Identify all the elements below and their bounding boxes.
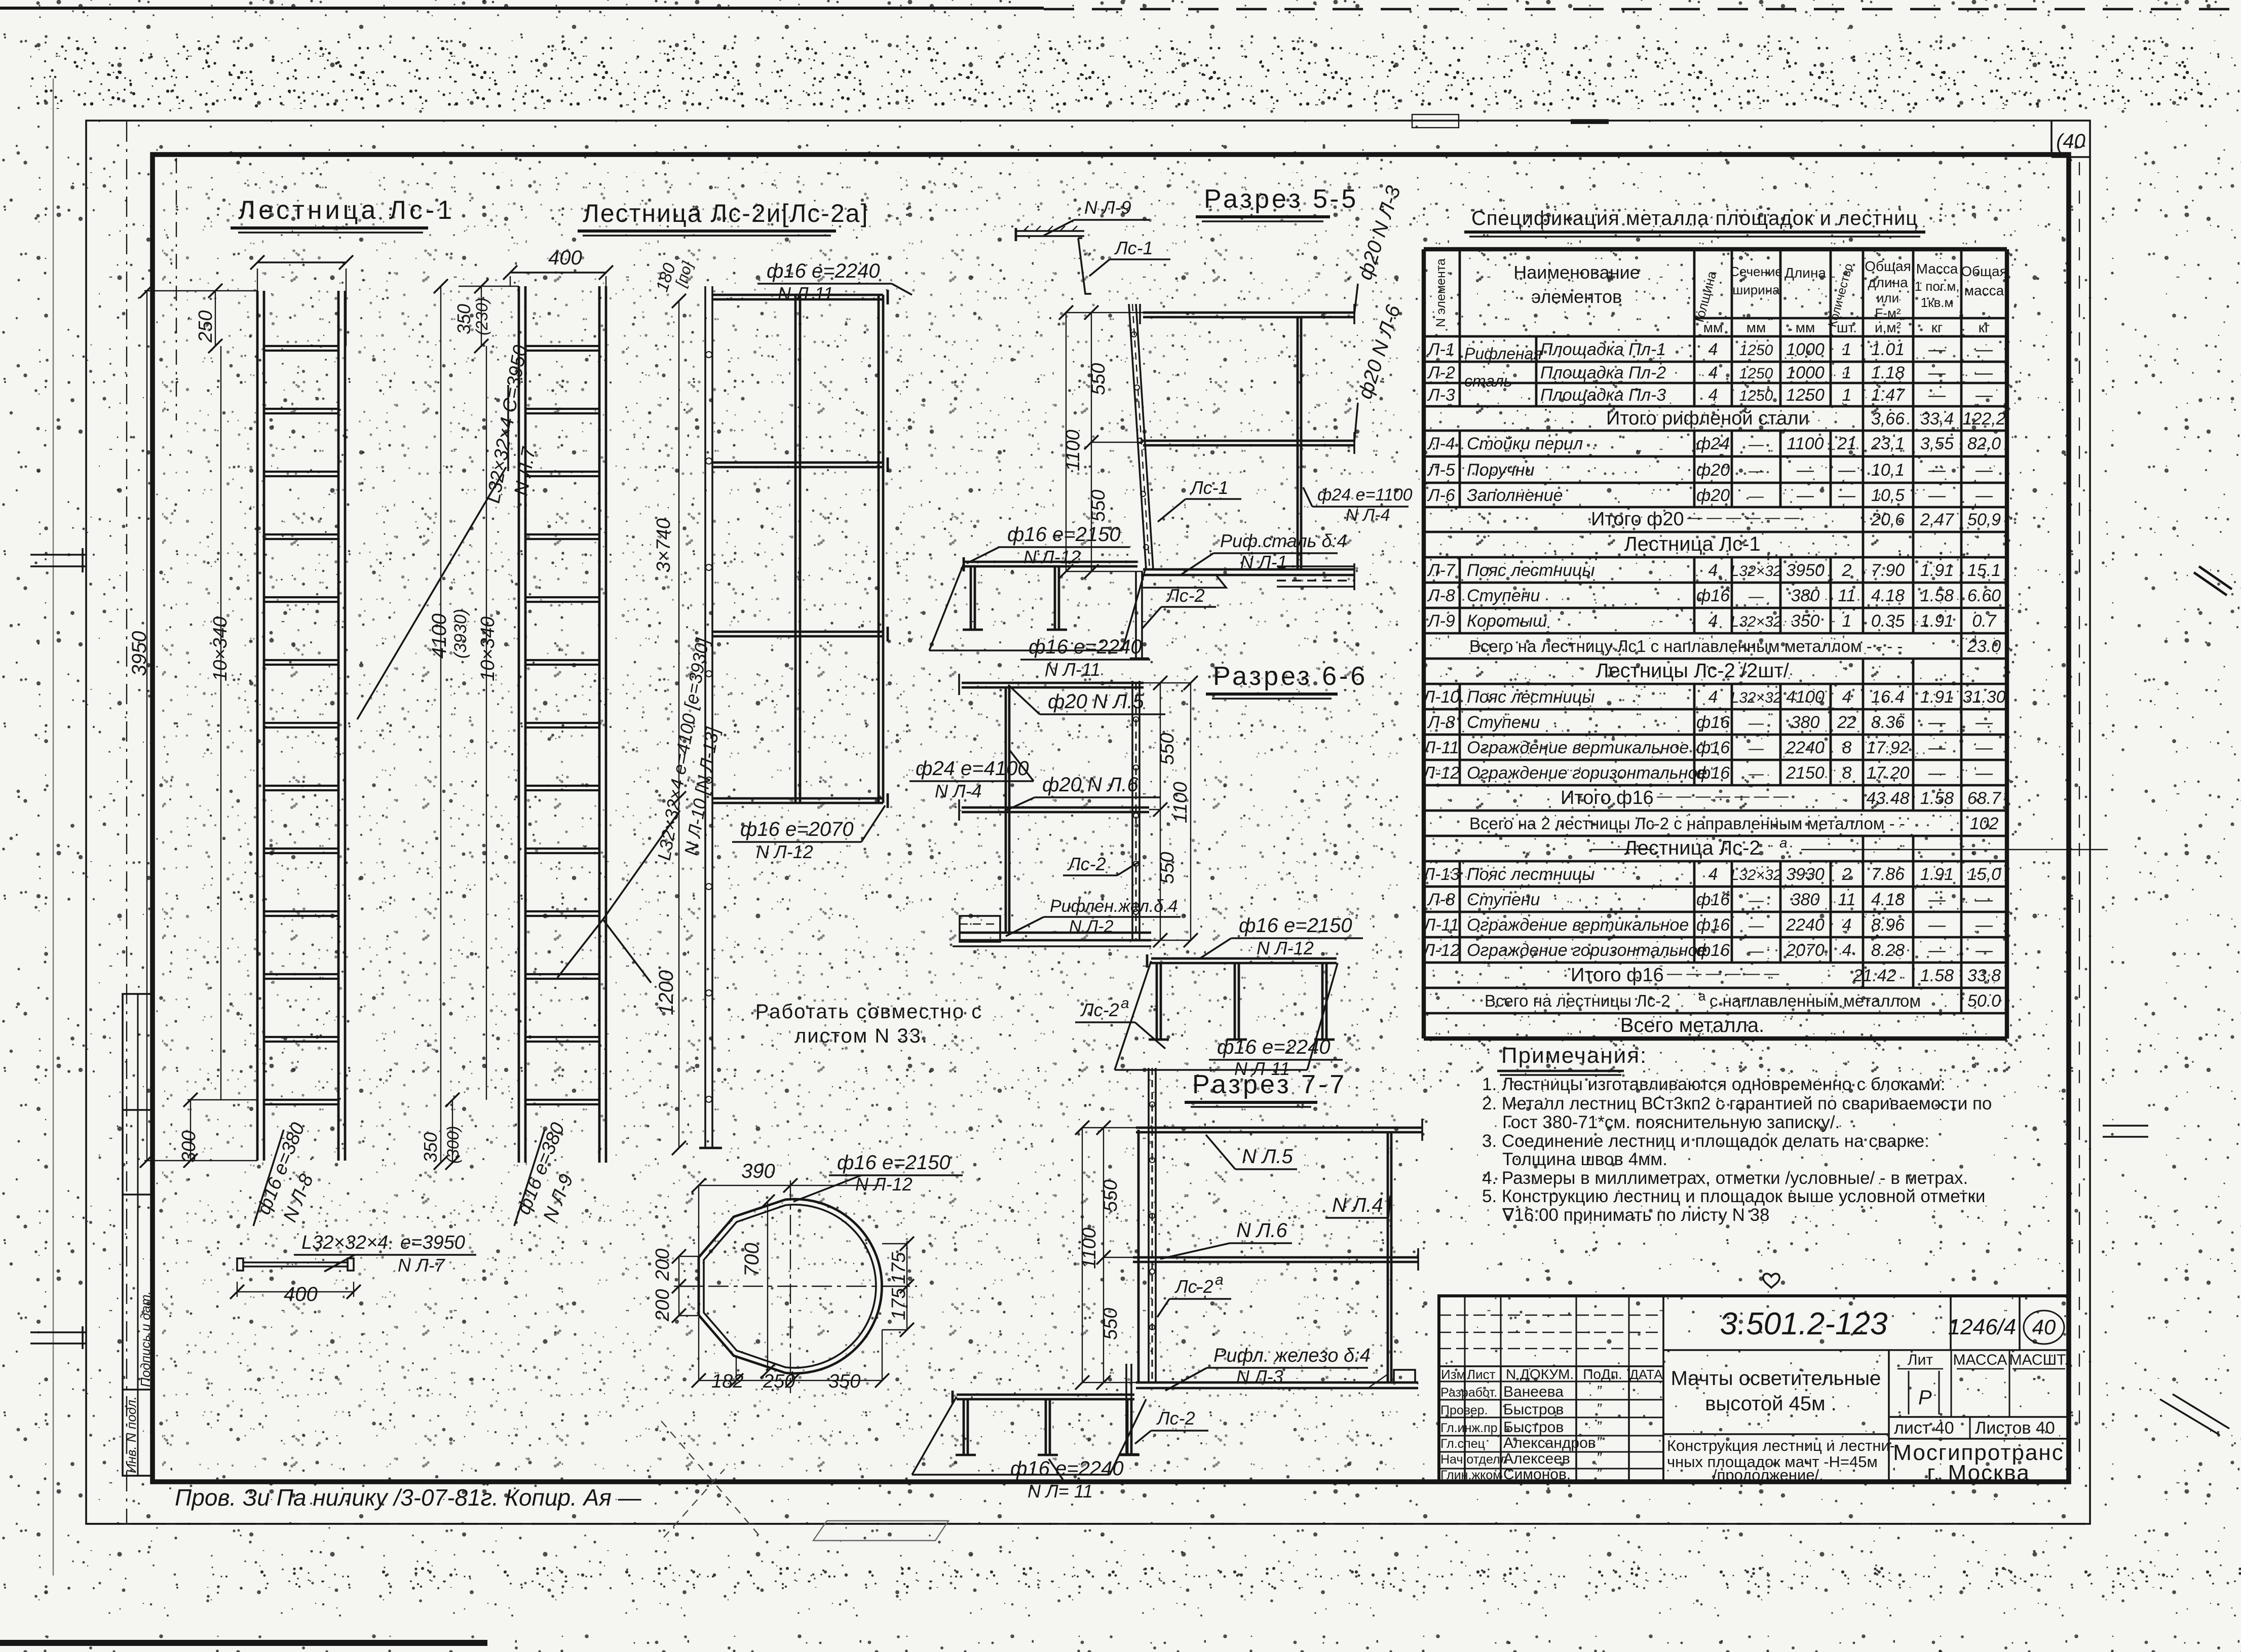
- svg-text:Л-6: Л-6: [1427, 486, 1455, 505]
- svg-text:Л-11: Л-11: [1423, 738, 1459, 757]
- svg-text:∇16.00 принимать по листу N: ∇16.00 принимать по листу N 38: [1502, 1205, 1770, 1225]
- svg-text:Пояс лестницы: Пояс лестницы: [1467, 865, 1595, 884]
- svg-text:1100: 1100: [1787, 434, 1824, 453]
- svg-text:—: —: [1928, 460, 1946, 480]
- svg-text:ф16: ф16: [1696, 586, 1730, 605]
- svg-text:Площадка Пл-1: Площадка Пл-1: [1540, 340, 1666, 359]
- svg-text:Быстров: Быстров: [1503, 1401, 1564, 1418]
- svg-text:Л-8: Л-8: [1427, 713, 1455, 732]
- svg-text:1 пог.м,: 1 пог.м,: [1915, 279, 1960, 294]
- svg-text:Быстров: Быстров: [1503, 1419, 1564, 1436]
- svg-text:Л-8: Л-8: [1427, 586, 1455, 605]
- svg-text:Пояс лестницы: Пояс лестницы: [1467, 561, 1595, 580]
- svg-text:Общая: Общая: [1961, 263, 2007, 279]
- svg-text:4: 4: [1708, 611, 1718, 631]
- svg-text:лист 40: лист 40: [1894, 1418, 1954, 1438]
- svg-text:550: 550: [1157, 852, 1178, 884]
- svg-text:—: —: [1975, 460, 1993, 480]
- svg-text:10×340: 10×340: [210, 617, 231, 681]
- svg-text:Л-7: Л-7: [1427, 561, 1456, 580]
- svg-text:Инв. N подл.: Инв. N подл.: [124, 1396, 139, 1473]
- svg-text:Лестница Лс-1: Лестница Лс-1: [238, 196, 455, 225]
- svg-text:—: —: [1975, 363, 1993, 382]
- svg-text:1250: 1250: [1739, 342, 1773, 359]
- svg-text:—: —: [1928, 941, 1946, 960]
- svg-text:ф16: ф16: [1696, 763, 1730, 783]
- svg-text:Ограждение горизонтальное: Ограждение горизонтальное: [1467, 763, 1707, 783]
- svg-text:50.0: 50.0: [1967, 991, 2001, 1011]
- svg-text:N элемента: N элемента: [1434, 258, 1448, 327]
- svg-text:1.58: 1.58: [1920, 586, 1954, 605]
- svg-text:—: —: [1796, 460, 1814, 480]
- svg-text:ф20: ф20: [1696, 486, 1730, 505]
- svg-text:/продолжение/.: /продолжение/.: [1713, 1466, 1824, 1484]
- svg-text:102: 102: [1970, 814, 1999, 833]
- svg-text:масса: масса: [1964, 283, 2004, 298]
- svg-text:—: —: [1928, 738, 1946, 757]
- svg-text:—: —: [1928, 363, 1946, 382]
- svg-text:ф20: ф20: [1696, 460, 1730, 480]
- svg-text:5. Конструкцию лестниц и площ: 5. Конструкцию лестниц и площадок выше у…: [1482, 1186, 1985, 1206]
- svg-text:Листов 40: Листов 40: [1975, 1418, 2055, 1438]
- svg-text:380: 380: [1791, 890, 1820, 909]
- svg-text:2,47: 2,47: [1920, 510, 1954, 529]
- svg-text:Лестницы Лс-2 /2шт/: Лестницы Лс-2 /2шт/: [1596, 660, 1790, 682]
- svg-text:22: 22: [1837, 713, 1856, 732]
- svg-text:23.0: 23.0: [1967, 637, 2001, 656]
- svg-text:ф16: ф16: [1696, 890, 1730, 909]
- svg-text:11: 11: [1838, 890, 1855, 909]
- svg-text:Лс-2: Лс-2: [1080, 1000, 1119, 1020]
- svg-text:1250: 1250: [1739, 388, 1773, 404]
- svg-text:1000: 1000: [1786, 340, 1825, 359]
- svg-text:ф16: ф16: [1696, 713, 1730, 732]
- svg-text:е=3950: е=3950: [400, 1232, 465, 1253]
- svg-text:1.91: 1.91: [1920, 865, 1954, 884]
- svg-text:—: —: [1975, 915, 1993, 935]
- svg-text:—: —: [1975, 340, 1993, 359]
- svg-text:4: 4: [1842, 687, 1852, 707]
- svg-text:4100: 4100: [1786, 687, 1825, 707]
- svg-text:— — — — — —: — — — — — —: [1687, 509, 1800, 526]
- svg-text:1250: 1250: [1786, 386, 1825, 405]
- svg-text:а: а: [1779, 835, 1788, 851]
- svg-text:L32×32: L32×32: [1731, 613, 1782, 630]
- svg-text:высотой 45м .: высотой 45м .: [1705, 1393, 1837, 1415]
- svg-text:—: —: [1748, 436, 1764, 453]
- svg-text:1.18: 1.18: [1871, 363, 1905, 382]
- svg-text:кг: кг: [1931, 320, 1943, 335]
- svg-text:N Л-4: N Л-4: [1346, 506, 1390, 525]
- svg-text:400: 400: [548, 247, 582, 269]
- svg-text:N Л-9: N Л-9: [1084, 197, 1131, 218]
- svg-text:N Л.4: N Л.4: [1332, 1194, 1383, 1216]
- svg-text:ф16: ф16: [1696, 738, 1730, 757]
- svg-text:Пров. Зи Па нилику /3-07-81г.: Пров. Зи Па нилику /3-07-81г. Копир. Ая …: [175, 1484, 642, 1511]
- svg-text:Ступени: Ступени: [1467, 586, 1540, 605]
- svg-text:Коротыш: Коротыш: [1467, 611, 1547, 631]
- svg-text:Ступени: Ступени: [1467, 713, 1540, 732]
- svg-text:Рифлен.жел.δ.4: Рифлен.жел.δ.4: [1050, 897, 1178, 916]
- svg-text:200: 200: [652, 1249, 673, 1281]
- svg-text:380: 380: [1791, 586, 1820, 605]
- svg-text:Всего на 2 лестницы Лс-2 с: Всего на 2 лестницы Лс-2 с направленным …: [1469, 814, 1905, 833]
- svg-text:4: 4: [1708, 340, 1718, 359]
- svg-text:300: 300: [178, 1131, 200, 1163]
- svg-text:1кв.м: 1кв.м: [1921, 295, 1954, 310]
- svg-text:Симонов.: Симонов.: [1503, 1466, 1571, 1483]
- svg-text:43.48: 43.48: [1866, 789, 1909, 808]
- svg-text:10,1: 10,1: [1871, 460, 1905, 480]
- svg-text:Лс-1: Лс-1: [1114, 238, 1153, 258]
- svg-text:—: —: [1975, 486, 1993, 505]
- svg-text:Л-9: Л-9: [1427, 611, 1455, 631]
- svg-text:ф24 е=4100: ф24 е=4100: [916, 757, 1029, 780]
- svg-text:мм: мм: [1746, 320, 1766, 335]
- svg-text:3.501.2-123: 3.501.2-123: [1720, 1307, 1888, 1341]
- svg-text:31.30: 31.30: [1962, 687, 2005, 707]
- svg-text:ф20 N Л.5: ф20 N Л.5: [1048, 690, 1145, 713]
- svg-text:Разрез 7-7: Разрез 7-7: [1192, 1070, 1347, 1099]
- svg-text:длина: длина: [1868, 275, 1908, 290]
- svg-text:50,9: 50,9: [1967, 510, 2001, 529]
- svg-text:4: 4: [1708, 363, 1718, 382]
- svg-text:2240: 2240: [1786, 915, 1825, 935]
- svg-text:1000: 1000: [1786, 363, 1825, 382]
- svg-text:Работать совместно с: Работать совместно с: [755, 1001, 982, 1023]
- svg-text:МАССА: МАССА: [1953, 1352, 2007, 1368]
- svg-text:N Л-1: N Л-1: [1240, 552, 1287, 572]
- svg-text:3950: 3950: [128, 631, 150, 676]
- svg-text:Александров: Александров: [1503, 1435, 1596, 1451]
- svg-text:21: 21: [1837, 434, 1856, 453]
- svg-text:1200: 1200: [655, 970, 677, 1015]
- svg-text:Пояс лестницы: Пояс лестницы: [1467, 687, 1595, 707]
- svg-text:1: 1: [1842, 386, 1852, 405]
- svg-text:ДАТА: ДАТА: [1629, 1367, 1663, 1382]
- svg-text:N Л-7: N Л-7: [398, 1255, 446, 1276]
- svg-text:250: 250: [195, 311, 216, 343]
- svg-text:390: 390: [741, 1160, 775, 1182]
- svg-text:L32×32: L32×32: [1731, 563, 1782, 580]
- svg-text:— — — — — — —: — — — — — — —: [1656, 788, 1789, 804]
- svg-text:1100: 1100: [1079, 1227, 1100, 1269]
- svg-text:—: —: [1975, 890, 1993, 909]
- svg-text:Л-4: Л-4: [1427, 434, 1455, 453]
- svg-text:Лестница Лс-2: Лестница Лс-2: [1624, 837, 1760, 859]
- svg-text:16.4: 16.4: [1871, 687, 1905, 707]
- svg-text:Итого ф16: Итого ф16: [1571, 965, 1664, 986]
- svg-text:2070: 2070: [1786, 941, 1825, 960]
- svg-text:4. Размеры в миллиметрах, отм: 4. Размеры в миллиметрах, отметки /услов…: [1482, 1168, 1968, 1188]
- svg-text:N Л-12: N Л-12: [855, 1174, 913, 1195]
- svg-text:а: а: [1698, 988, 1706, 1004]
- svg-text:N Л-11: N Л-11: [778, 283, 833, 304]
- svg-text:ф20 N Л.6: ф20 N Л.6: [1042, 774, 1139, 796]
- svg-text:10×340: 10×340: [477, 617, 499, 681]
- svg-text:3,55: 3,55: [1920, 434, 1954, 453]
- svg-text:Всего металла.: Всего металла.: [1620, 1014, 1765, 1036]
- svg-text:1.91: 1.91: [1920, 611, 1954, 631]
- svg-text:182: 182: [711, 1371, 743, 1392]
- svg-text:а: а: [1121, 995, 1129, 1012]
- svg-text:3×740: 3×740: [653, 518, 674, 572]
- svg-text:элементов: элементов: [1532, 286, 1622, 307]
- svg-text:Всего на лестницу Лс1 с напл: Всего на лестницу Лс1 с наплавленным мет…: [1469, 637, 1903, 656]
- svg-text:Мачты осветительные: Мачты осветительные: [1671, 1367, 1881, 1390]
- svg-text:1.47: 1.47: [1871, 386, 1905, 405]
- svg-text:1.91: 1.91: [1920, 561, 1954, 580]
- svg-text:8.36: 8.36: [1871, 713, 1905, 732]
- svg-text:1100: 1100: [1062, 430, 1084, 471]
- svg-text:400: 400: [284, 1283, 318, 1305]
- svg-text:0.35: 0.35: [1871, 611, 1905, 631]
- svg-text:Ограждение вертикальное: Ограждение вертикальное: [1467, 738, 1689, 757]
- svg-text:20,6: 20,6: [1871, 510, 1905, 529]
- svg-text:Толщина швов 4мм.: Толщина швов 4мм.: [1502, 1149, 1667, 1169]
- svg-text:Риф.сталь δ:4: Риф.сталь δ:4: [1220, 530, 1347, 551]
- svg-text:ф24: ф24: [1696, 434, 1730, 453]
- svg-text:82,0: 82,0: [1967, 434, 2001, 453]
- svg-text:Рифленая: Рифленая: [1464, 344, 1542, 363]
- svg-text:Ступени: Ступени: [1467, 890, 1540, 909]
- svg-text:11: 11: [1838, 586, 1855, 605]
- svg-text:33,8: 33,8: [1967, 966, 2001, 985]
- svg-text:1.58: 1.58: [1920, 966, 1954, 985]
- svg-text:3950: 3950: [1786, 561, 1825, 580]
- svg-text:Площадка Пл-3: Площадка Пл-3: [1540, 386, 1666, 405]
- svg-text:21.42: 21.42: [1852, 966, 1896, 985]
- svg-text:175: 175: [888, 1288, 909, 1320]
- svg-text:N Л-4: N Л-4: [935, 781, 982, 801]
- svg-text:—: —: [1748, 943, 1764, 959]
- svg-text:1250: 1250: [1739, 365, 1773, 382]
- svg-text:сталь: сталь: [1464, 372, 1512, 390]
- svg-text:Лс-2: Лс-2: [1166, 585, 1205, 606]
- svg-text:1.91: 1.91: [1920, 687, 1954, 707]
- svg-text:Разрез 5-5: Разрез 5-5: [1204, 184, 1358, 214]
- svg-text:Длина: Длина: [1784, 265, 1826, 281]
- svg-text:Гл.инж.пр: Гл.инж.пр: [1440, 1421, 1498, 1435]
- svg-text:3. Соединение лестниц и площ: 3. Соединение лестниц и площадок делать …: [1482, 1131, 1929, 1151]
- svg-text:—: —: [1928, 486, 1946, 505]
- svg-text:Стойки перил: Стойки перил: [1467, 434, 1583, 453]
- svg-text:4.18: 4.18: [1871, 586, 1905, 605]
- svg-text:ф16 е=2150: ф16 е=2150: [1007, 523, 1121, 546]
- svg-text:4100: 4100: [428, 613, 450, 659]
- svg-text:8: 8: [1842, 763, 1852, 783]
- svg-text:—: —: [1975, 763, 1993, 783]
- svg-text:—: —: [1928, 386, 1946, 405]
- svg-text:—: —: [1748, 715, 1764, 732]
- svg-text:380: 380: [1791, 713, 1820, 732]
- svg-text:2: 2: [1842, 561, 1852, 580]
- svg-text:ф16: ф16: [1696, 915, 1730, 935]
- svg-text:МАСШТ.: МАСШТ.: [2009, 1352, 2069, 1368]
- svg-text:Л-2: Л-2: [1427, 363, 1455, 382]
- svg-text:N Л-3: N Л-3: [1236, 1366, 1283, 1387]
- svg-text:ф16: ф16: [1696, 941, 1730, 960]
- svg-text:—: —: [1748, 488, 1764, 505]
- svg-text:2240: 2240: [1786, 738, 1825, 757]
- svg-text:ПоДп.: ПоДп.: [1583, 1366, 1622, 1382]
- svg-text:—: —: [1928, 763, 1946, 783]
- svg-text:—: —: [1975, 738, 1993, 757]
- svg-text:— — — — — —: — — — — — —: [1666, 965, 1780, 982]
- svg-text:Лс-2: Лс-2: [1067, 854, 1106, 874]
- svg-text:г. Москва: г. Москва: [1927, 1461, 2030, 1485]
- svg-text:550: 550: [1088, 363, 1109, 395]
- svg-text:Общая: Общая: [1865, 258, 1911, 274]
- svg-text:N Л-12: N Л-12: [756, 841, 813, 862]
- svg-text:700: 700: [741, 1243, 763, 1277]
- svg-text:Разрез 6-6: Разрез 6-6: [1213, 662, 1368, 691]
- svg-text:15.1: 15.1: [1967, 561, 2001, 580]
- svg-text:Наименование: Наименование: [1513, 262, 1640, 283]
- svg-text:4: 4: [1708, 386, 1718, 405]
- svg-text:L32×32: L32×32: [1731, 867, 1782, 883]
- svg-text:N ДОКУМ.: N ДОКУМ.: [1506, 1366, 1574, 1382]
- svg-text:33,4: 33,4: [1920, 409, 1954, 429]
- svg-text:Конструкция лестниц и лестни: Конструкция лестниц и лестни-: [1667, 1437, 1895, 1454]
- svg-text:ф16 е=2240: ф16 е=2240: [1217, 1036, 1331, 1058]
- svg-text:Л-5: Л-5: [1427, 460, 1455, 480]
- svg-text:250: 250: [763, 1371, 795, 1392]
- svg-text:122,2: 122,2: [1962, 409, 2005, 429]
- svg-text:кг: кг: [1979, 320, 1990, 335]
- svg-text:8.28: 8.28: [1871, 941, 1905, 960]
- svg-text:Лс-2: Лс-2: [1156, 1408, 1195, 1429]
- svg-text:23,1: 23,1: [1871, 434, 1905, 453]
- svg-text:—: —: [1838, 460, 1856, 480]
- svg-text:8: 8: [1842, 738, 1852, 757]
- svg-text:Поручни: Поручни: [1467, 460, 1535, 480]
- svg-text:—: —: [1748, 917, 1764, 934]
- svg-text:Гост 380-71*см. пояснительную: Гост 380-71*см. пояснительную записку/.: [1502, 1112, 1840, 1132]
- svg-text:—: —: [1928, 713, 1946, 732]
- svg-text:550: 550: [1100, 1308, 1121, 1340]
- svg-text:Нач.отделл: Нач.отделл: [1440, 1452, 1507, 1467]
- svg-text:40: 40: [2032, 1315, 2056, 1339]
- svg-text:—: —: [1928, 915, 1946, 935]
- svg-text:350: 350: [828, 1371, 860, 1392]
- svg-text:Итого ф20: Итого ф20: [1591, 509, 1684, 530]
- svg-text:—: —: [1928, 340, 1946, 359]
- svg-text:Л-11: Л-11: [1423, 915, 1459, 935]
- svg-text:Провер.: Провер.: [1440, 1403, 1488, 1417]
- svg-text:550: 550: [1088, 490, 1109, 522]
- svg-text:4: 4: [1708, 687, 1718, 707]
- svg-text:ширина: ширина: [1732, 282, 1780, 297]
- svg-text:1: 1: [1842, 611, 1852, 631]
- svg-text:—: —: [1748, 892, 1764, 909]
- svg-text:4: 4: [1842, 941, 1852, 960]
- svg-text:3,66: 3,66: [1871, 409, 1905, 429]
- svg-text:Л-12: Л-12: [1422, 763, 1460, 783]
- svg-text:Лестница Лс-1: Лестница Лс-1: [1624, 533, 1760, 555]
- svg-text:а: а: [1215, 1272, 1224, 1288]
- svg-text:(300): (300): [444, 1126, 462, 1164]
- svg-text:7.90: 7.90: [1871, 561, 1905, 580]
- svg-text:Л-3: Л-3: [1427, 386, 1455, 405]
- svg-text:Разработ.: Разработ.: [1440, 1386, 1497, 1400]
- svg-text:Ванеева: Ванеева: [1503, 1384, 1564, 1400]
- svg-text:(230): (230): [473, 297, 491, 335]
- svg-text:2: 2: [1842, 865, 1852, 884]
- svg-text:L32×32: L32×32: [1731, 689, 1782, 706]
- svg-text:Рифл. железо δ:4: Рифл. железо δ:4: [1213, 1345, 1371, 1366]
- svg-text:Спецификация металла площадо: Спецификация металла площадок и лестниц: [1471, 207, 1918, 229]
- svg-text:1. Лестницы изготавливаются од: 1. Лестницы изготавливаются одновременно…: [1482, 1074, 1945, 1094]
- svg-text:—: —: [1748, 740, 1764, 757]
- svg-text:1246/4: 1246/4: [1948, 1315, 2017, 1339]
- svg-text:ф16 е=2240: ф16 е=2240: [767, 260, 880, 282]
- svg-text:—: —: [1748, 588, 1764, 605]
- svg-text:ф24 е=1100: ф24 е=1100: [1317, 485, 1413, 505]
- svg-text:1: 1: [1842, 363, 1852, 382]
- svg-text:2150: 2150: [1786, 763, 1825, 783]
- svg-text:Лс-2: Лс-2: [1174, 1276, 1213, 1297]
- svg-text:ф16 е=2150: ф16 е=2150: [1239, 914, 1352, 937]
- svg-text:Лит: Лит: [1908, 1352, 1933, 1368]
- svg-text:—: —: [1975, 941, 1993, 960]
- svg-text:—: —: [1975, 386, 1993, 405]
- svg-text:Примечания:: Примечания:: [1501, 1043, 1647, 1068]
- svg-text:550: 550: [1157, 733, 1178, 765]
- svg-text:Всего на лестницы Лс-2: Всего на лестницы Лс-2: [1485, 991, 1670, 1010]
- svg-text:—: —: [1748, 463, 1764, 479]
- svg-text:N Л.5: N Л.5: [1242, 1145, 1294, 1168]
- svg-text:350: 350: [453, 304, 474, 334]
- svg-text:Итого ф16: Итого ф16: [1561, 787, 1654, 809]
- svg-text:—: —: [1838, 486, 1856, 505]
- svg-text:мм: мм: [1796, 320, 1815, 335]
- svg-text:шт.: шт.: [1837, 320, 1857, 335]
- svg-text:Изм: Изм: [1441, 1367, 1465, 1382]
- svg-text:ф16 е=2240: ф16 е=2240: [1010, 1457, 1124, 1480]
- svg-text:—: —: [1928, 890, 1946, 909]
- svg-text:Лестница Лс-2и[Лс-2а]: Лестница Лс-2и[Лс-2а]: [583, 199, 868, 227]
- svg-text:4: 4: [1708, 561, 1718, 580]
- svg-text:Ограждение вертикальное: Ограждение вертикальное: [1467, 915, 1689, 935]
- svg-text:17.20: 17.20: [1866, 763, 1909, 783]
- svg-text:Итого рифленой стали: Итого рифленой стали: [1606, 408, 1809, 429]
- svg-text:15,0: 15,0: [1967, 865, 2001, 884]
- svg-text:N Л-2: N Л-2: [1069, 917, 1114, 936]
- svg-text:ф16 е=2150: ф16 е=2150: [837, 1151, 951, 1174]
- svg-text:Алексеев: Алексеев: [1503, 1450, 1570, 1467]
- svg-text:ф16 е=2070: ф16 е=2070: [740, 818, 854, 840]
- svg-text:(3930): (3930): [451, 609, 470, 659]
- svg-text:Л-10: Л-10: [1422, 687, 1460, 707]
- svg-text:N Л.6: N Л.6: [1236, 1219, 1288, 1242]
- svg-text:Л-12: Л-12: [1422, 941, 1460, 960]
- svg-text:10,5: 10,5: [1871, 486, 1905, 505]
- svg-text:—: —: [1975, 713, 1993, 732]
- svg-text:4: 4: [1708, 865, 1718, 884]
- svg-text:N Л= 11: N Л= 11: [1028, 1481, 1093, 1502]
- svg-text:7.86: 7.86: [1871, 865, 1905, 884]
- svg-text:листом N 33.: листом N 33.: [794, 1025, 928, 1047]
- svg-text:—: —: [1748, 765, 1764, 782]
- svg-text:L32×32×4: L32×32×4: [301, 1232, 388, 1253]
- svg-text:N Л-12: N Л-12: [1257, 938, 1314, 958]
- svg-text:Масса: Масса: [1916, 261, 1958, 277]
- svg-text:3930: 3930: [1786, 865, 1825, 884]
- svg-text:1: 1: [1842, 340, 1852, 359]
- svg-text:68.7: 68.7: [1967, 789, 2001, 808]
- svg-text:1.58: 1.58: [1920, 789, 1954, 808]
